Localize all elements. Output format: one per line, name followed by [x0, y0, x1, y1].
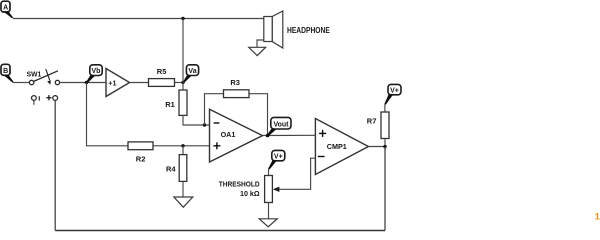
wire switch to buffer — [60, 82, 106, 84]
wire right vertical to bottom rail — [384, 147, 386, 231]
wire R7 to output node — [384, 139, 386, 147]
svg-text:A: A — [3, 5, 8, 12]
junction Vout — [266, 134, 270, 138]
wire V+ to pot — [268, 169, 270, 175]
ground (R4) — [174, 197, 193, 207]
wire buffer to R5 — [130, 82, 149, 84]
svg-text:10 kΩ: 10 kΩ — [240, 189, 260, 198]
wire left vertical from connector — [54, 100, 56, 230]
resistor R2 — [128, 142, 153, 164]
resistor R5 — [149, 67, 175, 87]
switch SW1 — [27, 69, 60, 85]
wire Vb junction down to R2 row — [87, 83, 129, 146]
svg-text:R4: R4 — [166, 164, 176, 173]
wire top rail A to headphone — [13, 18, 264, 20]
junction inverting input — [203, 123, 206, 126]
svg-text:SW1: SW1 — [27, 69, 42, 78]
node V+ (threshold) — [268, 150, 285, 169]
svg-text:THRESHOLD: THRESHOLD — [219, 180, 260, 189]
junction Va — [181, 81, 184, 84]
wire feedback left leg — [205, 94, 224, 125]
wire junction to R4 — [182, 146, 184, 155]
wire CMP1 minus input to pot wiper — [279, 158, 315, 189]
node Vout — [267, 117, 291, 135]
junction CMP1 output — [383, 145, 386, 148]
buffer amp +1 — [106, 69, 130, 97]
wire CMP1 output — [368, 146, 385, 148]
wire R4 to ground — [182, 181, 184, 197]
node B — [1, 64, 14, 83]
wire vertical top junction through Va to R1 — [182, 19, 184, 91]
comparator CMP1 — [315, 119, 368, 175]
svg-text:B: B — [3, 68, 8, 75]
svg-text:HEADPHONE: HEADPHONE — [287, 26, 330, 35]
svg-text:R2: R2 — [136, 155, 146, 164]
node A — [1, 1, 13, 18]
wire B to switch — [14, 82, 30, 84]
potentiometer THRESHOLD 10k — [219, 176, 273, 203]
svg-text:R1: R1 — [165, 100, 175, 109]
wire R2 to plus input — [153, 145, 210, 147]
svg-text:Vout: Vout — [273, 121, 289, 128]
svg-text:Va: Va — [188, 68, 196, 75]
resistor R7 — [367, 112, 389, 139]
svg-text:V+: V+ — [274, 154, 283, 161]
svg-text:Vb: Vb — [92, 68, 101, 75]
node junction top — [181, 17, 184, 20]
junction R4 — [181, 144, 184, 147]
ground (headphone) — [249, 47, 266, 55]
wire OA1 output to CMP1 — [263, 134, 316, 136]
svg-text:CMP1: CMP1 — [327, 142, 347, 151]
headphone speaker — [257, 11, 283, 48]
resistor R4 — [166, 155, 187, 182]
input connector terminals — [32, 95, 58, 105]
svg-text:+1: +1 — [108, 78, 116, 87]
node V+ (R7) — [384, 84, 401, 104]
svg-text:R7: R7 — [367, 117, 377, 126]
svg-text:R5: R5 — [157, 67, 167, 76]
node Vb — [86, 65, 102, 83]
wiper arrow — [273, 187, 280, 192]
wire R1 to inverting node — [183, 115, 210, 125]
wire R5 to Va junction — [175, 82, 184, 84]
svg-text:R3: R3 — [230, 78, 240, 87]
wire bottom rail — [55, 230, 385, 232]
svg-text:1: 1 — [595, 212, 600, 223]
wire V+ to R7 — [384, 104, 386, 112]
ground (threshold) — [259, 219, 277, 227]
op-amp OA1 — [210, 109, 263, 162]
junction Vb — [85, 81, 88, 84]
resistor R3 — [224, 78, 250, 98]
wire pot to ground — [268, 203, 270, 219]
node Va — [183, 65, 199, 83]
wire feedback right leg to output — [249, 94, 268, 136]
svg-text:OA1: OA1 — [221, 130, 236, 139]
svg-text:V+: V+ — [390, 88, 399, 95]
resistor R1 — [165, 90, 187, 115]
